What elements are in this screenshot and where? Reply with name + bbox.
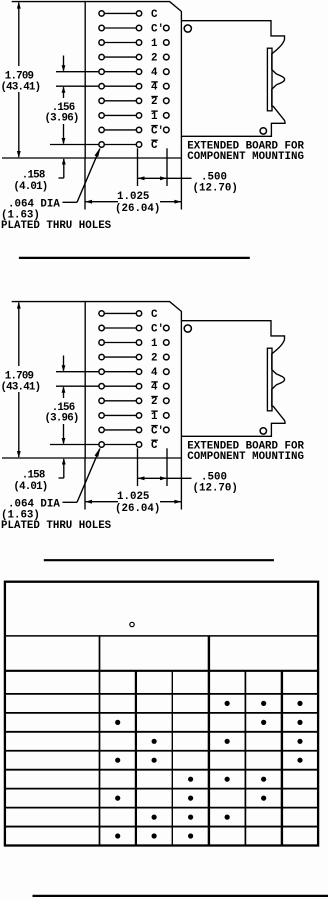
board outline D1 (85, 2, 181, 158)
dim 1.709 extension lines D2 (2, 302, 85, 458)
dim .158 arrows D1 (59, 124, 66, 178)
svg-text:(12.70): (12.70) (193, 483, 238, 495)
mounting hole top D2 (184, 325, 191, 332)
plated thru hole row2 col2 D1 (136, 25, 141, 30)
svg-text:C': C' (151, 23, 164, 35)
plated thru hole row8 col3 D2 (164, 413, 170, 419)
plated thru hole row10 col2 D2 (136, 442, 141, 447)
dot row9 col4 (188, 833, 193, 838)
plated thru hole row3 col3 D2 (164, 340, 170, 346)
wire row10 D2 (105, 444, 136, 446)
svg-text:2: 2 (151, 53, 157, 65)
table row line 6 (5, 788, 318, 790)
plated thru hole row8 col3 D1 (164, 113, 170, 119)
plated thru hole row5 col3 D2 (164, 369, 170, 375)
svg-text:(43.41): (43.41) (1, 382, 41, 394)
dim .156 arrows D1 (62, 56, 66, 99)
plated thru hole row4 col2 D2 (136, 354, 141, 359)
wire row4 D2 (105, 356, 136, 358)
svg-text:2: 2 (151, 353, 157, 365)
dim .158 arrows D2 (59, 424, 66, 478)
table title row small circle (130, 622, 134, 626)
wire row6 D1 (105, 85, 136, 87)
dot row5 col7 (297, 758, 302, 763)
svg-text:1: 1 (151, 338, 158, 350)
plated thru hole row7 col2 D1 (136, 98, 141, 103)
wire row1 D1 (105, 12, 136, 14)
plated thru hole row3 col1 D2 (99, 340, 104, 345)
plated thru hole row4 col2 D1 (136, 54, 141, 59)
dot row8 col4 (188, 815, 193, 820)
dot row2 col6 (261, 701, 266, 706)
svg-text:C: C (151, 140, 158, 152)
table header band bottom thick line (5, 670, 318, 672)
plated thru hole row9 col1 D1 (99, 127, 104, 132)
dim .158 row10 extension line D1 (50, 144, 99, 146)
svg-text:C': C' (151, 323, 164, 335)
plated thru hole row4 col3 D2 (164, 354, 170, 360)
dim .500 line+arrows D1 (138, 176, 192, 180)
wire row7 D1 (105, 100, 136, 102)
dot row6 col4 (188, 777, 193, 782)
svg-text:(4.01): (4.01) (13, 481, 47, 493)
bottom extension lines D2 (85, 448, 181, 509)
dim .158 row10 extension line D2 (50, 444, 99, 446)
dot row6 col5 (225, 777, 230, 782)
svg-text:4: 4 (151, 382, 158, 394)
plated thru hole row3 col1 D1 (99, 40, 104, 45)
mounting hole bottom D1 (260, 128, 266, 134)
svg-text:(4.01): (4.01) (13, 181, 47, 193)
plated thru hole row6 col1 D1 (99, 84, 104, 89)
plated thru hole row2 col3 D1 (164, 25, 170, 31)
svg-text:4: 4 (151, 82, 158, 94)
mounting hole bottom D2 (260, 428, 266, 434)
plated thru hole row6 col2 D2 (136, 384, 141, 389)
svg-text:COMPONENT MOUNTING: COMPONENT MOUNTING (187, 451, 304, 463)
wire row10 D1 (105, 144, 136, 146)
plated thru hole row2 col2 D2 (136, 325, 141, 330)
svg-text:(43.41): (43.41) (1, 82, 41, 94)
extended board outline D2 (181, 321, 285, 437)
dot row4 col3 (152, 739, 157, 744)
plated thru hole row4 col1 D2 (99, 354, 104, 359)
svg-text:4: 4 (151, 367, 158, 379)
svg-text:4: 4 (151, 67, 158, 79)
wire row4 D1 (105, 56, 136, 58)
table row line 1 (5, 693, 318, 695)
wire row2 D2 (105, 327, 136, 329)
plated thru hole row9 col2 D2 (136, 427, 141, 432)
plated thru hole row9 col2 D1 (136, 127, 141, 132)
dot row7 col4 (188, 796, 193, 801)
table row line 3 (5, 731, 318, 733)
dim .156 extension lines D2 (56, 372, 99, 387)
dot row9 col2 (115, 833, 120, 838)
svg-text:PLATED THRU HOLES: PLATED THRU HOLES (1, 220, 112, 232)
plated thru hole row1 col1 D2 (99, 311, 104, 316)
svg-text:1: 1 (151, 411, 158, 423)
table row line 5 (5, 769, 318, 771)
bottom extension lines D1 (85, 148, 181, 209)
plated thru hole row1 col1 D1 (99, 11, 104, 16)
table vertical divider x172.3 (171, 671, 173, 846)
dim .156 extension lines D1 (56, 72, 99, 87)
wire row6 D2 (105, 385, 136, 387)
dim 1.709 line+arrows D1 (17, 2, 21, 158)
plated thru hole row6 col2 D1 (136, 84, 141, 89)
svg-text:2: 2 (151, 96, 157, 108)
wire row7 D2 (105, 400, 136, 402)
plated thru hole row5 col1 D2 (99, 369, 104, 374)
wire row3 D2 (105, 342, 136, 344)
plated thru hole row1 col2 D2 (136, 311, 141, 316)
plated thru hole row5 col3 D1 (164, 69, 170, 75)
plated thru hole row8 col2 D1 (136, 113, 141, 118)
plated thru hole row9 col3 D2 (164, 427, 170, 433)
plated thru hole row10 col1 D1 (99, 142, 104, 147)
mounting hole top D1 (184, 25, 191, 32)
svg-text:1: 1 (151, 38, 158, 50)
svg-text:C': C' (151, 425, 164, 437)
svg-text:1: 1 (151, 111, 158, 123)
leader .064 DIA D2 (63, 447, 101, 502)
dim 1.709 line+arrows D2 (17, 302, 21, 458)
svg-text:1.025: 1.025 (117, 491, 149, 503)
plated thru hole row4 col3 D1 (164, 54, 170, 60)
svg-text:.158: .158 (22, 170, 45, 182)
plated thru hole row2 col1 D1 (99, 25, 104, 30)
dim .156 arrows D2 (62, 356, 66, 399)
plated thru hole row5 col1 D1 (99, 69, 104, 74)
wire row1 D2 (105, 312, 136, 314)
wire row9 D1 (105, 129, 136, 131)
plated thru hole row3 col2 D1 (136, 40, 141, 45)
dot row3 col6 (261, 720, 266, 725)
plated thru hole row5 col2 D2 (136, 369, 141, 374)
table row line 4 (5, 750, 318, 752)
table vertical divider x99.5 (99, 636, 101, 846)
svg-text:C': C' (151, 125, 164, 137)
leader .064 DIA D1 (63, 147, 101, 202)
table vertical divider x208.9 thick (208, 636, 210, 846)
extended board outline D1 (181, 21, 285, 137)
wire row8 D2 (105, 414, 136, 416)
svg-text:(12.70): (12.70) (193, 183, 238, 195)
plated thru hole row1 col2 D1 (136, 11, 141, 16)
plated thru hole row6 col3 D1 (164, 83, 170, 89)
plated thru hole row3 col3 D1 (164, 40, 170, 46)
dot row2 col7 (297, 701, 302, 706)
plated thru hole row6 col1 D2 (99, 384, 104, 389)
plated thru hole row7 col3 D1 (164, 98, 170, 104)
plated thru hole row2 col1 D2 (99, 325, 104, 330)
plated thru hole row10 col1 D2 (99, 442, 104, 447)
svg-text:(26.04): (26.04) (115, 203, 160, 215)
dim 1.025 line+arrows D2 (85, 500, 181, 504)
dot row7 col2 (115, 796, 120, 801)
plated thru hole row10 col2 D1 (136, 142, 141, 147)
separator line B (44, 559, 274, 561)
dim 1.709 extension lines D1 (2, 2, 85, 158)
dot row5 col2 (115, 758, 120, 763)
dot row7 col6 (261, 796, 266, 801)
wire row5 D2 (105, 371, 136, 373)
plated thru hole row8 col1 D2 (99, 413, 104, 418)
svg-text:C: C (151, 9, 158, 21)
dim 1.025 line+arrows D1 (85, 200, 181, 204)
table vertical divider x281.9 thick (281, 671, 283, 846)
dot row2 col5 (225, 701, 230, 706)
separator line C (33, 895, 328, 897)
svg-text:PLATED THRU HOLES: PLATED THRU HOLES (1, 520, 112, 532)
svg-text:(26.04): (26.04) (115, 503, 160, 515)
dot row3 col7 (297, 720, 302, 725)
wire row3 D1 (105, 42, 136, 44)
plated thru hole row3 col2 D2 (136, 340, 141, 345)
plated thru hole row9 col1 D2 (99, 427, 104, 432)
dot row8 col5 (225, 815, 230, 820)
table row line 8 (5, 826, 318, 828)
table vertical divider x135.9 thick (135, 671, 137, 846)
wire row9 D2 (105, 429, 136, 431)
plated thru hole row7 col2 D2 (136, 398, 141, 403)
svg-text:C: C (151, 440, 158, 452)
dot row4 col7 (297, 739, 302, 744)
wire row8 D1 (105, 114, 136, 116)
dot row3 col2 (115, 720, 120, 725)
svg-text:1.025: 1.025 (117, 191, 149, 203)
plated thru hole row4 col1 D1 (99, 54, 104, 59)
dot row9 col3 (152, 833, 157, 838)
plated thru hole row5 col2 D1 (136, 69, 141, 74)
dot row4 col5 (225, 739, 230, 744)
table row line 2 (5, 712, 318, 714)
table vertical divider x245.4 (244, 671, 246, 846)
plated thru hole row7 col1 D2 (99, 398, 104, 403)
dot row8 col3 (152, 815, 157, 820)
svg-text:(3.96): (3.96) (45, 413, 79, 425)
dot row6 col6 (261, 777, 266, 782)
svg-text:(3.96): (3.96) (45, 113, 79, 125)
board outline D2 (85, 302, 181, 458)
plated thru hole row8 col2 D2 (136, 413, 141, 418)
svg-text:C: C (151, 309, 158, 321)
dot row5 col3 (152, 758, 157, 763)
plated thru hole row2 col3 D2 (164, 325, 170, 331)
table title row bottom line (5, 635, 318, 637)
separator line A (19, 257, 250, 259)
plated thru hole row7 col3 D2 (164, 398, 170, 404)
table row line 7 (5, 807, 318, 809)
svg-text:COMPONENT MOUNTING: COMPONENT MOUNTING (187, 151, 304, 163)
dim .500 line+arrows D2 (138, 476, 192, 480)
plated thru hole row9 col3 D1 (164, 127, 170, 133)
svg-text:2: 2 (151, 396, 157, 408)
plated thru hole row6 col3 D2 (164, 383, 170, 389)
wire row2 D1 (105, 27, 136, 29)
connector contact bar D1 (267, 48, 272, 111)
svg-text:.158: .158 (22, 470, 45, 482)
plated thru hole row8 col1 D1 (99, 113, 104, 118)
connector contact bar D2 (267, 348, 272, 411)
wire row5 D1 (105, 71, 136, 73)
plated thru hole row7 col1 D1 (99, 98, 104, 103)
table outer border (5, 582, 318, 846)
